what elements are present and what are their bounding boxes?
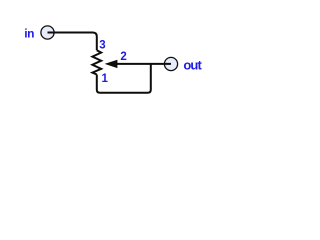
svg-text:3: 3	[99, 39, 105, 51]
svg-text:out: out	[183, 57, 202, 72]
svg-text:1: 1	[102, 73, 109, 85]
svg-text:in: in	[24, 26, 34, 40]
svg-text:2: 2	[120, 51, 126, 63]
